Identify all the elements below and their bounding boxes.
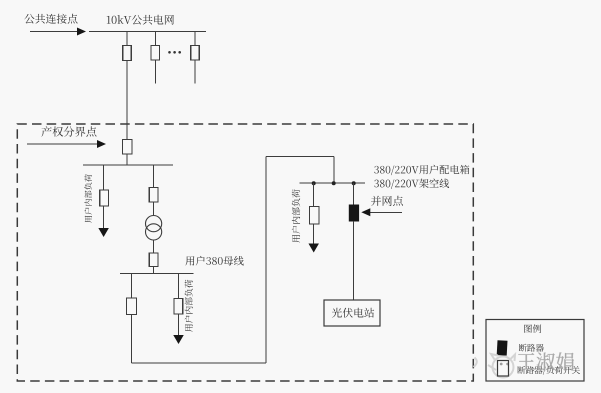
wire feeder-3 drop: [194, 32, 196, 46]
label 并网点 (grid connection point): [371, 196, 403, 206]
label 用户内部负荷 vertical (380V internal load): [185, 280, 193, 332]
wire 380bus to CB9: [178, 273, 180, 298]
wire top run to distribution box: [266, 156, 334, 158]
breaker CB5 (internal load feeder): [100, 190, 109, 206]
label 用户380母线 (user 380 busbar): [185, 256, 243, 266]
label 产权分界点 (property demarcation point): [41, 126, 96, 136]
breaker CB4 (demarcation): [123, 140, 133, 155]
wire 380bus to CB8: [131, 273, 133, 298]
legend symbol: open breaker/load switch (hollow): [498, 361, 509, 377]
arrow to grid connection point: [361, 208, 402, 216]
wire bus to CB6: [153, 165, 155, 188]
wire CB9 to load arrow: [178, 314, 180, 336]
wire transformer to CB7: [153, 240, 155, 253]
wire feeder-3 stub: [194, 60, 196, 84]
label 图例 (legend title): [524, 324, 541, 332]
breaker CB9 (internal load 380V): [174, 299, 183, 315]
user 10kV busbar: [83, 164, 173, 166]
10kV grid busbar: [89, 31, 206, 33]
watermark text 王淑娟: [517, 352, 574, 370]
wire CB4 to user 10kV bus: [126, 154, 128, 165]
property boundary dashed box: [17, 124, 473, 381]
label 断路器 (breaker): [519, 344, 544, 352]
breaker CB2 (other 10kV feeder): [151, 46, 160, 61]
wire feeder-1 drop: [126, 32, 128, 46]
breaker CB7 (transformer LV): [149, 253, 158, 267]
legend symbol: closed breaker (filled): [497, 340, 508, 355]
user 380V busbar: [120, 272, 193, 274]
ellipsis dots (more feeders): [168, 51, 181, 54]
breaker CB10 (dist box internal load): [310, 206, 319, 224]
arrow internal load (380V side): [173, 335, 184, 344]
wire bottom run to riser: [132, 362, 267, 364]
label 10kV公共电网 (10kV public grid): [107, 15, 174, 25]
label 380/220V用户配电箱 (user distribution box): [374, 165, 469, 175]
wire feeder-1 down to demarcation: [126, 61, 128, 140]
wire dist-bus to CB10: [313, 183, 315, 206]
wire CB6 to transformer: [153, 202, 155, 216]
breaker CB3 (other 10kV feeder): [191, 46, 200, 61]
wire CB8 down: [131, 315, 133, 364]
arrow internal load (10kV side): [98, 228, 109, 237]
label 光伏电站 (PV station): [332, 308, 374, 318]
arrow to point of common coupling: [30, 28, 86, 36]
breaker CB6 (transformer HV): [149, 188, 158, 203]
label 断路器/负荷开关 (breaker/load switch): [517, 366, 579, 375]
label 380/220V架空线 (overhead line): [374, 179, 449, 189]
arrow internal load (dist box): [308, 244, 319, 253]
label 用户内部负荷 vertical (dist box load): [292, 189, 300, 242]
breaker CB8 (PV interconnection feeder): [127, 298, 137, 315]
breaker CB1 (10kV feeder to user): [123, 46, 132, 61]
legend box: [486, 320, 584, 382]
wire CB11 to PV station box: [353, 221, 355, 300]
wire CB5 to load arrow: [103, 206, 105, 229]
wire CB7 to 380 bus: [153, 267, 155, 274]
breaker CB11 closed (grid-connection point, filled): [349, 205, 358, 221]
wire feeder-2 drop: [154, 32, 156, 46]
wire riser up: [265, 157, 267, 363]
wire CB10 to load arrow: [313, 224, 315, 245]
wire feeder-2 stub: [154, 60, 156, 84]
PV station box 光伏电站: [324, 300, 380, 326]
wire bus to CB5: [103, 165, 105, 190]
watermark logo (cat): [474, 354, 516, 378]
wire dist-bus to grid-connection breaker: [353, 183, 355, 205]
label 用户内部负荷 vertical (10kV internal load): [84, 174, 92, 223]
transformer T1 (two-winding): [146, 216, 162, 240]
junction node dots on distribution bus: [312, 181, 356, 185]
label 公共连接点 (point of common coupling): [24, 14, 77, 24]
wire down to distribution bus: [333, 157, 335, 184]
380/220V distribution busbar: [300, 182, 365, 184]
arrow to demarcation breaker: [27, 140, 106, 148]
